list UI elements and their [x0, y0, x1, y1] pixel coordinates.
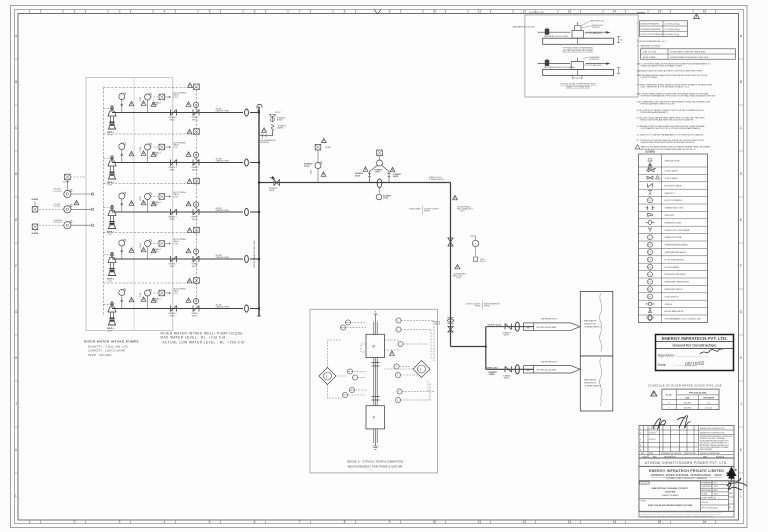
- expansion joint on vertical run: [447, 318, 453, 324]
- svg-text:RAW WATER HD-100 (LM): RAW WATER HD-100 (LM): [513, 26, 535, 29]
- svg-text:A1: A1: [714, 496, 716, 499]
- svg-text:DETAIL A - TYPICAL TEMP & VIBR: DETAIL A - TYPICAL TEMP & VIBRATION: [347, 460, 403, 464]
- pump interlock dashed bus (left): [103, 88, 105, 317]
- svg-text:8: 8: [344, 520, 346, 524]
- svg-text:RIVER WATER INTAKE PUMPS: RIVER WATER INTAKE PUMPS: [84, 339, 139, 343]
- svg-text:PLANT DRAIN: PLANT DRAIN: [409, 208, 421, 211]
- svg-text:CPP-SB1-W-1804-RAB: CPP-SB1-W-1804-RAB: [536, 326, 557, 329]
- svg-text:3: 3: [119, 10, 121, 14]
- svg-text:1: 1: [29, 520, 31, 524]
- top center mark: [374, 10, 381, 15]
- detail: air vessel with drain pit: [538, 57, 621, 89]
- svg-text:CF100: CF100: [383, 198, 388, 200]
- svg-text:PRESSURE SWITCH: PRESSURE SWITCH: [665, 289, 684, 291]
- legend symbol: butterfly valve: [648, 183, 653, 187]
- svg-text:DRAIN: DRAIN: [489, 373, 495, 376]
- svg-text:DRAIN PIT FOR AIR VENT: DRAIN PIT FOR AIR VENT: [566, 86, 591, 89]
- svg-text:(T) AVR: (T) AVR: [325, 146, 332, 149]
- reservoir feed tee: [485, 327, 487, 370]
- svg-text:WITH AVR: WITH AVR: [261, 141, 270, 144]
- svg-text:COMPARTMENT-1: COMPARTMENT-1: [584, 326, 602, 329]
- svg-text:7+2 KG/Sq.CM (g): 7+2 KG/Sq.CM (g): [664, 24, 680, 26]
- legend symbol: drain pot: [648, 190, 652, 194]
- legend symbol: flow element: [648, 264, 653, 269]
- svg-text:PREPARED: PREPARED: [661, 452, 671, 455]
- level transmitter square LT: [65, 174, 71, 180]
- inter-train interlock dashed line 1: [104, 129, 200, 135]
- svg-text:5: 5: [209, 520, 211, 524]
- consultant block: [639, 466, 734, 481]
- bottom elbow to reservoir tee: [451, 346, 486, 348]
- svg-text:RW RESERVOIR: RW RESERVOIR: [541, 319, 557, 321]
- svg-text:DRG No.: DRG No.: [702, 502, 709, 504]
- detail A: coupling shaft: [374, 358, 377, 406]
- svg-text:14: 14: [613, 10, 617, 14]
- svg-text:2: 2: [74, 10, 76, 14]
- pipe schedule warning triangle: [651, 391, 657, 396]
- svg-text:9: 9: [389, 10, 391, 14]
- alarm box 2: [32, 224, 38, 230]
- solenoid box top: [194, 84, 200, 90]
- svg-text:APPROVED: APPROVED: [687, 452, 697, 455]
- svg-text:B: B: [740, 80, 742, 84]
- svg-text:LEVEL SWITCH: LEVEL SWITCH: [665, 296, 679, 298]
- svg-text:ISSUED FOR CONSTRUCTION: ISSUED FOR CONSTRUCTION: [700, 428, 725, 430]
- svg-text:REV.: REV.: [729, 493, 733, 495]
- svg-text:0: 0: [640, 432, 641, 434]
- main line isolation valve: [269, 176, 280, 192]
- svg-text:RW RESERVOIR: RW RESERVOIR: [541, 361, 557, 363]
- svg-text:ALARM: ALARM: [32, 232, 39, 235]
- svg-text:PIPING: PIPING: [484, 306, 490, 308]
- pump train 1 (RWIP-1): [104, 92, 260, 137]
- svg-text:STD. 8MM HOLE: STD. 8MM HOLE: [589, 65, 603, 67]
- svg-text:SCHEDULE OF RIVER WATER INTAKE: SCHEDULE OF RIVER WATER INTAKE PIPE LINE: [648, 383, 722, 387]
- gate valve below expansion joint: [448, 327, 453, 333]
- svg-text:2x600 MW: 2x600 MW: [665, 491, 677, 493]
- svg-text:VALVE: VALVE: [393, 175, 399, 178]
- svg-text:12: 12: [523, 10, 527, 14]
- svg-text:3: 3: [119, 520, 121, 524]
- svg-text:TYPICAL DETAIL OF AIRVESSEL: TYPICAL DETAIL OF AIRVESSEL: [563, 47, 594, 50]
- orifice flow meter station on main line: [355, 150, 401, 200]
- svg-text:PROJECT:: PROJECT:: [641, 483, 650, 485]
- svg-text:FLOW ELEMENT: FLOW ELEMENT: [665, 267, 681, 269]
- svg-text:PIPING EQUIPMENT VENDOR SCOPE: PIPING EQUIPMENT VENDOR SCOPE.: [641, 104, 676, 106]
- svg-text:MOTOR OPERATED: MOTOR OPERATED: [665, 199, 683, 202]
- svg-text:L: L: [740, 494, 742, 498]
- svg-text:07.10.02: 07.10.02: [649, 428, 656, 430]
- svg-text:15: 15: [658, 10, 662, 14]
- svg-text:(TYP): (TYP): [456, 278, 461, 280]
- main discharge line to cross country: [259, 182, 451, 184]
- svg-text:LEGEND: LEGEND: [645, 151, 655, 154]
- inter-train interlock dashed line 2: [104, 178, 200, 184]
- svg-text:15: 15: [658, 520, 662, 524]
- inter-train interlock dashed line 3: [104, 227, 200, 233]
- svg-text:COMPARTMENT-2: COMPARTMENT-2: [584, 385, 602, 388]
- triangle near level instruments: [74, 200, 79, 204]
- svg-text:TEMPERATURE GAUGE: TEMPERATURE GAUGE: [665, 251, 687, 254]
- revision signatures scribbles: [651, 419, 666, 430]
- detail A: bottom shaft: [374, 429, 377, 446]
- svg-text:AVR/M: AVR/M: [278, 127, 284, 130]
- svg-text:B: B: [15, 80, 17, 84]
- svg-text:CPP-SB1-W-1004-RAB: CPP-SB1-W-1004-RAB: [536, 369, 557, 372]
- svg-text:MIDDLE SWITCHES AND REMOTE/LOC: MIDDLE SWITCHES AND REMOTE/LOCAL BUTTON …: [641, 119, 695, 122]
- svg-text:01.05.02: 01.05.02: [649, 439, 656, 441]
- svg-text:(TYP): (TYP): [460, 211, 465, 213]
- legend symbol: open flow: [648, 228, 652, 233]
- level instrument LIT: [39, 204, 94, 213]
- svg-text:VALVE: VALVE: [504, 377, 510, 380]
- svg-text:13. VENDOR TO CONFIRM THE AVAI: 13. VENDOR TO CONFIRM THE AVAILABILITY O…: [637, 133, 705, 136]
- legend symbol: temperature gauge: [648, 250, 653, 255]
- svg-text:DISMANTLING JOINT: DISMANTLING JOINT: [665, 207, 685, 210]
- svg-text:ATHENA CHHATTISGARH POWER PVT.: ATHENA CHHATTISGARH POWER PVT. LTD.: [645, 461, 728, 465]
- svg-text:HEAD : 130 mWC: HEAD : 130 mWC: [88, 354, 112, 357]
- svg-text:1: 1: [640, 428, 641, 430]
- svg-text:QUANTITY : 5 Nos. (4W +1S): QUANTITY : 5 Nos. (4W +1S): [88, 345, 128, 348]
- svg-text:PRESSURE MEASUREMENTS.: PRESSURE MEASUREMENTS.: [641, 111, 669, 114]
- svg-text:PRESSURE INDICATOR: PRESSURE INDICATOR: [665, 273, 687, 276]
- svg-text:6: 6: [254, 10, 256, 14]
- legend symbol: motor operated: [648, 198, 653, 203]
- svg-text:VALVE: VALVE: [504, 333, 510, 336]
- svg-text:9: 9: [389, 520, 391, 524]
- legend symbol: sluice valve: [646, 169, 656, 172]
- svg-text:PIPE SIZE IN (MM): PIPE SIZE IN (MM): [689, 392, 707, 394]
- legend symbol: expansion joint: [646, 221, 655, 223]
- svg-text:PRESSURE TRANSMITTER: PRESSURE TRANSMITTER: [665, 281, 690, 284]
- svg-text:VIBRATION PROBE: VIBRATION PROBE: [665, 236, 683, 239]
- svg-text:M: M: [649, 200, 651, 202]
- level instrument LSH: [39, 220, 94, 229]
- svg-text:50NB: 50NB: [311, 170, 313, 174]
- detail A: triangle: [390, 351, 395, 355]
- svg-text:TG: TG: [648, 252, 651, 254]
- note 15 triangle: [635, 145, 640, 149]
- pump schedule caption: [84, 339, 139, 357]
- svg-text:RESERVOIR: RESERVOIR: [584, 324, 596, 326]
- svg-text:Signature :...................: Signature :............................: [658, 352, 708, 357]
- legend symbol: reducer: [648, 213, 653, 216]
- reservoir branch 2: [486, 361, 581, 379]
- svg-text:THICKNESS: THICKNESS: [703, 397, 715, 399]
- svg-text:M: M: [372, 345, 375, 349]
- svg-text:DIVERT & ISO.: DIVERT & ISO.: [486, 367, 499, 369]
- svg-text:BUTTERFLY VALVE: BUTTERFLY VALVE: [665, 184, 683, 187]
- svg-text:LT-100: LT-100: [64, 182, 70, 184]
- svg-text:IS:WIRE/GRADE FE330 ERW/ IS 20: IS:WIRE/GRADE FE330 ERW/ IS 2062 GR.A: [670, 56, 709, 59]
- raw water reservoir compartment 2: [580, 356, 613, 411]
- svg-text:CHECKED BY: CHECKED BY: [702, 486, 714, 488]
- svg-text:2: 2: [74, 520, 76, 524]
- svg-text:VALVE: VALVE: [269, 189, 275, 192]
- instrument beside vertical run: [470, 236, 486, 263]
- valve interlock dashed bus (right): [196, 90, 198, 303]
- svg-text:PREPARED BY: PREPARED BY: [702, 482, 715, 485]
- svg-text:CF100: CF100: [375, 172, 380, 174]
- svg-text:GENERAL RIVER DIVISION, INTERC: GENERAL RIVER DIVISION, INTERCHANGE - 29…: [651, 474, 722, 477]
- legend symbol: dismantling joint: [646, 206, 655, 210]
- detail A: motor shaft: [374, 321, 377, 334]
- svg-text:ONS TO LONG: ONS TO LONG: [643, 52, 657, 54]
- reservoir branch 1: [486, 319, 580, 337]
- svg-text:KORANGI SWITCH: KORANGI SWITCH: [429, 178, 445, 181]
- svg-text:600: 600: [620, 40, 623, 42]
- svg-text:HYDRO TEST PRESSURE: HYDRO TEST PRESSURE: [641, 34, 665, 36]
- svg-text:11: 11: [478, 10, 482, 14]
- svg-text:16: 16: [703, 10, 707, 14]
- svg-text:1: 1: [668, 402, 669, 404]
- svg-text:VALVE: VALVE: [355, 174, 361, 177]
- svg-text:ENERGY INFRATECH PRIVATE LIMIT: ENERGY INFRATECH PRIVATE LIMITED: [649, 469, 724, 473]
- svg-text:AVR/M: AVR/M: [277, 119, 283, 122]
- svg-text:SLUICE VALVE: SLUICE VALVE: [665, 177, 679, 180]
- detail A: pump block: [366, 406, 385, 429]
- cross country / plant reservoir boundary labels: [466, 301, 501, 310]
- svg-text:MEASUREMENT FOR PUMP & MOTOR: MEASUREMENT FOR PUMP & MOTOR: [348, 465, 404, 469]
- triangle on vertical run: [453, 195, 458, 199]
- svg-text:STD. 8MM HOLE: STD. 8MM HOLE: [589, 33, 603, 35]
- svg-text:8: 8: [344, 10, 346, 14]
- svg-text:14: 14: [613, 520, 617, 524]
- svg-text:1000 NB: 1000 NB: [684, 407, 692, 409]
- svg-text:ALARM: ALARM: [32, 198, 39, 201]
- svg-text:WORKING PRESSURE: WORKING PRESSURE: [641, 29, 662, 31]
- triangle near top solenoid: [188, 83, 193, 87]
- svg-text:EXPANSION JOINT: EXPANSION JOINT: [665, 221, 683, 224]
- svg-text:1: 1: [731, 501, 732, 503]
- svg-text:RESERVOIR: RESERVOIR: [584, 383, 596, 385]
- svg-text:F: F: [740, 264, 742, 268]
- note 1 pressure table: [637, 21, 688, 37]
- legal fine print strip: [639, 511, 734, 517]
- legend symbol: pressure switch: [648, 287, 653, 292]
- notes list 4-15: [637, 62, 717, 151]
- svg-text:400 NB: 400 NB: [684, 402, 691, 404]
- pump train 5 (RWIP-5): [104, 288, 260, 333]
- svg-text:AIR RELEASE VALVE: AIR RELEASE VALVE: [665, 310, 684, 313]
- inter-train interlock dashed line 4: [104, 278, 200, 284]
- svg-text:13: 13: [568, 10, 572, 14]
- svg-text:SL.No.: SL.No.: [666, 394, 672, 396]
- issued-for-construction stamp: [656, 335, 734, 371]
- svg-text:MAX WATER LEVEL :: MAX WATER LEVEL : RL. +216.5 M: [161, 336, 226, 340]
- header air valve assembly: [259, 112, 286, 144]
- detail A: right junction box (diamond): [413, 361, 430, 378]
- detail A enclosure box: [310, 309, 438, 473]
- svg-text:4: 4: [164, 10, 166, 14]
- ruler numbers bottom: [29, 520, 707, 524]
- flow instrument on main line: [304, 138, 332, 182]
- svg-text:10: 10: [433, 10, 437, 14]
- note 3 material table: [641, 49, 736, 59]
- svg-text:ACTUAL LOW WATER LEVEL : RL.: ACTUAL LOW WATER LEVEL : RL. +203.0 M: [163, 340, 245, 344]
- svg-text:TYPICAL DETAIL OF AIRVESSEL WI: TYPICAL DETAIL OF AIRVESSEL WITH: [560, 83, 597, 86]
- svg-text:5. AIRVALVES ARE PROVIDED AT: 5. AIRVALVES ARE PROVIDED AT EVERY LOW P…: [637, 69, 704, 72]
- title block: [639, 481, 734, 512]
- svg-text:LINES AT EACH POINTS AS SHOWN: LINES AT EACH POINTS AS SHOWN IN PIPELIN…: [641, 141, 696, 144]
- svg-text:1000 NB CARBON STEEL (U/G): 1000 NB CARBON STEEL (U/G): [253, 240, 256, 268]
- header top gooseneck vent: [257, 104, 262, 108]
- svg-text:P&ID FOR RIVER WATER INTAKE SY: P&ID FOR RIVER WATER INTAKE SYSTEM: [648, 504, 692, 507]
- pump train 4 (RWIP-4): [104, 238, 260, 283]
- plant drain / cross country boundary labels: [409, 206, 439, 215]
- svg-text:SHEET SIZE: SHEET SIZE: [702, 497, 713, 499]
- legend symbol: level switch: [648, 294, 653, 299]
- svg-text:E: E: [326, 374, 328, 378]
- legend table frame: [639, 154, 708, 322]
- typical details enclosure box: [525, 15, 638, 97]
- intake well inner wall line: [133, 78, 135, 331]
- detail A: top vent symbol: [374, 312, 378, 322]
- svg-text:IS:3589 (PART-1) MEDIUM GRADE: IS:3589 (PART-1) MEDIUM GRADE ERW: [670, 51, 705, 54]
- svg-text:DRAIN THE WATER USING PORTABLE: DRAIN THE WATER USING PORTABLE PUMPS.: [641, 65, 683, 68]
- svg-text:1: 1: [29, 10, 31, 14]
- svg-text:CHECKED: CHECKED: [674, 453, 683, 455]
- svg-text:ENERGY INFRATECH PVT. LTD.: ENERGY INFRATECH PVT. LTD.: [662, 336, 728, 341]
- elbow to vertical cross country run: [450, 183, 452, 347]
- svg-text:6: 6: [254, 520, 256, 524]
- svg-text:DESIGN PRESSURE: DESIGN PRESSURE: [641, 24, 660, 26]
- detail: air vessel at pump delivery: [538, 20, 623, 53]
- client name bar: [639, 458, 734, 466]
- svg-text:4: 4: [668, 407, 669, 409]
- svg-text:2. DESIGN TEMPERATURE :: 2. DESIGN TEMPERATURE : 50° C: [637, 40, 668, 43]
- svg-text:CAGE WITH LOCK: CAGE WITH LOCK: [590, 20, 606, 23]
- svg-text:Date: Date: [658, 362, 667, 367]
- svg-text:CHHATTISGARH: CHHATTISGARH: [661, 494, 679, 497]
- svg-text:PIPING: PIPING: [424, 211, 430, 213]
- svg-text:E: E: [740, 218, 742, 222]
- svg-text:REDUCER: REDUCER: [665, 215, 675, 217]
- legend symbol: pressure indicator: [648, 272, 653, 277]
- svg-text:SUPPORTS: SUPPORTS: [590, 59, 600, 61]
- water level caption: [161, 332, 245, 345]
- svg-text:E: E: [420, 367, 422, 371]
- intake well rectangle: [86, 78, 173, 331]
- legend symbol: vibration probe: [648, 235, 653, 240]
- legend symbol: air release valve: [649, 308, 652, 312]
- pipe schedule table: [662, 389, 719, 409]
- svg-text:PLC/DCS: PLC/DCS: [54, 191, 63, 193]
- discharge header (1000 NB): [258, 107, 260, 317]
- svg-text:AT PUMP DELIVERY WITH VENT: AT PUMP DELIVERY WITH VENT: [563, 50, 594, 53]
- svg-text:F: F: [15, 264, 17, 268]
- svg-text:ISSUED FOR APPROVAL: ISSUED FOR APPROVAL: [700, 452, 720, 455]
- svg-text:SLUICE VLV JTW: SLUICE VLV JTW: [529, 12, 544, 14]
- svg-text:COUNTRY PIPING.: COUNTRY PIPING.: [641, 77, 658, 79]
- svg-text:31.08.02: 31.08.02: [649, 432, 656, 434]
- consultant logo (pine): [726, 467, 736, 480]
- legend symbol: flow transmitter: [648, 257, 653, 262]
- svg-text:TO DCS: TO DCS: [54, 206, 62, 208]
- svg-text:SUBCRITICAL THERMAL PROJECT: SUBCRITICAL THERMAL PROJECT: [652, 487, 690, 490]
- svg-text:PLC/DCS: PLC/DCS: [54, 222, 63, 224]
- svg-text:7: 7: [299, 520, 301, 524]
- svg-text:5: 5: [209, 10, 211, 14]
- svg-text:MATERIAL OF PIPING: MATERIAL OF PIPING: [641, 45, 661, 48]
- top interlock dashed line: [104, 87, 198, 89]
- svg-text:SCALE: SCALE: [702, 493, 708, 496]
- svg-text:FOR DRAINING THE PORTION OF: FOR DRAINING THE PORTION OF PIPING DURIN…: [641, 127, 701, 130]
- svg-text:NOTES: NOTES: [637, 12, 646, 15]
- svg-text:10: 10: [433, 520, 437, 524]
- legend symbol: temperature element: [648, 242, 653, 247]
- svg-text:WQ-1-5: WQ-1-5: [480, 261, 486, 263]
- header junction dots: [258, 111, 260, 309]
- svg-text:ASTM GRADE: ASTM GRADE: [643, 56, 656, 59]
- svg-text:SLUICE VALVE: SLUICE VALVE: [665, 170, 679, 173]
- svg-text:DRAIN POT: DRAIN POT: [665, 192, 676, 195]
- svg-text:UPV 4″: UPV 4″: [275, 112, 281, 114]
- legend row dividers: [639, 167, 708, 315]
- svg-text:S.S.: S.S.: [714, 483, 718, 485]
- legend labels: [665, 160, 702, 321]
- svg-text:VERTICAL PUMP: VERTICAL PUMP: [665, 160, 681, 163]
- approval scribble near logo: [727, 478, 747, 490]
- svg-text:SUPPORT: SUPPORT: [592, 27, 600, 29]
- gate valve on vertical run: [448, 238, 453, 246]
- svg-text:Issued for Construction: Issued for Construction: [673, 343, 718, 348]
- svg-text:TEMPERATURE ELEMENT: TEMPERATURE ELEMENT: [665, 244, 689, 247]
- svg-text:CF100: CF100: [304, 166, 309, 168]
- svg-text:7+2 KG/Sq.CM (g): 7+2 KG/Sq.CM (g): [664, 29, 680, 31]
- svg-text:CAPACITY : 1350 CU.M/HR: CAPACITY : 1350 CU.M/HR: [88, 350, 125, 353]
- level instrument LSL: [54, 189, 94, 198]
- alarm box 1: [32, 207, 38, 213]
- svg-text:E: E: [15, 218, 17, 222]
- svg-text:12: 12: [523, 520, 527, 524]
- svg-text:6.3 & 10: 6.3 & 10: [705, 407, 712, 409]
- svg-text:TITLE:: TITLE:: [641, 501, 647, 503]
- svg-text:5.0: 5.0: [707, 402, 710, 404]
- svg-text:SIZE: SIZE: [685, 397, 690, 399]
- raw water reservoir compartment 1: [580, 291, 613, 356]
- svg-text:LINE - REFER DET 'A' FOR INDIC: LINE - REFER DET 'A' FOR INDICATED PLAN …: [641, 86, 690, 89]
- svg-text:EIPL-W-CECB-DD06: EIPL-W-CECB-DD06: [702, 508, 718, 510]
- legend symbol: orifice: [646, 303, 655, 305]
- triangle lower on vertical run: [455, 264, 460, 268]
- svg-text:RAW WATER: RAW WATER: [584, 320, 597, 323]
- svg-text:PROGRAMMABLE LOGIC CONTROLLE: PROGRAMMABLE LOGIC CONTROLLER: [665, 318, 702, 321]
- legend symbol: vertical pump: [648, 158, 652, 168]
- svg-text:13: 13: [568, 520, 572, 524]
- detail A: instrument circles left: [340, 320, 357, 398]
- svg-text:APPROVED BY: APPROVED BY: [702, 489, 715, 492]
- svg-text:SLUICE # 4,5,6,0: SLUICE # 4,5,6,0: [488, 324, 502, 327]
- svg-text:LINE UPDATED.: LINE UPDATED.: [700, 448, 713, 451]
- pump train 2 (RWIP-2): [104, 142, 260, 187]
- svg-text:L: L: [15, 494, 17, 498]
- pump train 3 (RWIP-3): [104, 191, 260, 236]
- legend symbol: pressure transmitter: [648, 279, 653, 284]
- svg-text:WORKING TEMPERATURE. PIPE THIC: WORKING TEMPERATURE. PIPE THICK./ FLOW S…: [641, 95, 717, 98]
- svg-text:RAW WATER 100X100 COVER: RAW WATER 100X100 COVER: [544, 35, 569, 38]
- revision table: [639, 426, 734, 459]
- svg-text:ISSUED FOR CONSTRUCTION: ISSUED FOR CONSTRUCTION: [700, 432, 725, 434]
- svg-text:REV.: REV.: [641, 453, 645, 455]
- detail A: instrument circles right: [394, 318, 403, 403]
- legend symbol: sluice valve w/ triangle: [647, 176, 653, 179]
- detail A: motor block: [366, 334, 385, 357]
- header bottom cap: [257, 315, 261, 317]
- ruler numbers top: [29, 10, 707, 14]
- notes warning triangle: [694, 14, 700, 19]
- svg-text:7: 7: [299, 10, 301, 14]
